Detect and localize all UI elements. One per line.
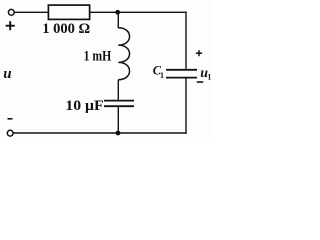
wire top left segment (terminal to resistor) <box>14 11 47 13</box>
inductor 1 mH coil <box>118 28 129 80</box>
svg-text:u: u <box>3 66 11 82</box>
wire right branch upper (corner down to C1) <box>185 12 187 69</box>
wire middle branch (coil to capacitor) <box>117 80 119 100</box>
node junction top <box>115 10 120 15</box>
plus sign of source u <box>6 21 15 30</box>
capacitor C1 <box>166 70 197 78</box>
wire right branch lower (C1 to bottom corner) <box>185 79 187 134</box>
wire top middle segment (resistor to junction) <box>90 11 118 13</box>
wire middle branch lower (capacitor to bottom junction) <box>117 107 119 133</box>
plus sign of u1 <box>196 50 202 56</box>
capacitor 10 uF <box>104 101 134 107</box>
svg-text:1 mH: 1 mH <box>84 48 112 64</box>
minus sign of source u <box>8 118 13 120</box>
minus sign of u1 <box>197 81 203 83</box>
node junction bottom <box>116 131 121 136</box>
svg-text:10 μF: 10 μF <box>65 98 103 114</box>
terminal bottom-left <box>7 130 13 136</box>
svg-text:1 000 Ω: 1 000 Ω <box>42 21 90 37</box>
terminal top-left <box>8 9 14 15</box>
wire top right segment (junction to right corner) <box>118 11 186 13</box>
resistor 1000 ohm <box>48 5 89 19</box>
wire middle branch upper (junction down to coil) <box>117 12 119 28</box>
wire bottom <box>13 132 187 134</box>
